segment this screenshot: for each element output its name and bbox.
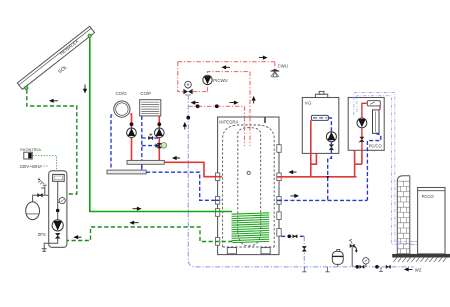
wire: cold water riser to mixer (light blue)	[188, 95, 195, 267]
tank port stubs right	[277, 145, 281, 236]
svg-text:PCCO: PCCO	[422, 194, 435, 199]
wire: drain drop to cold main (light blue)	[303, 236, 305, 266]
wire: return manifold to tank (blue)	[146, 172, 221, 200]
valve on cold main 1	[360, 265, 364, 268]
arrow down on solid green drop	[84, 85, 87, 93]
svg-text:P/CWU: P/CWU	[213, 78, 227, 83]
ball valve on cold main	[355, 265, 359, 269]
pressure gauge on ZPS	[58, 197, 66, 204]
drain tee 2	[325, 267, 329, 272]
svg-text:PC/CO: PC/CO	[369, 144, 382, 149]
control line EKONTROL to ZPS (dotted green)	[32, 156, 56, 173]
wire: boiler return internal (blue)	[328, 118, 331, 132]
CWU tap symbol (shower outlet)	[271, 62, 280, 77]
wire: tank internal CWU drops (red dash-dot, over tank)	[245, 117, 251, 146]
ZPS internal pipe upper	[57, 181, 59, 220]
gas boiler KG housing	[302, 98, 339, 154]
wire: CO/P supply (red)	[158, 116, 160, 160]
solar collector SOL (HEWALEX panel)	[17, 26, 94, 89]
wire: tank drain to cold main (blue)	[281, 235, 304, 237]
tank foot right	[261, 248, 270, 254]
wire: boiler return drop (blue)	[328, 142, 332, 201]
wire: supply manifold to tank (red)	[164, 162, 221, 176]
svg-text:CO/G: CO/G	[116, 91, 128, 96]
pump CO/G	[127, 128, 137, 138]
wire: solar supply (solid green) collector to tank coil	[90, 38, 232, 212]
arrow left on red supply	[173, 157, 180, 160]
arrow right on mixer line	[230, 101, 238, 104]
arrow left on CH supply main	[290, 171, 297, 174]
pressure gauge on cold main	[363, 257, 369, 267]
solar coil inside tank (green)	[232, 213, 270, 243]
tank port stubs left	[215, 173, 219, 245]
wire: PC/CO internal supply (red)	[362, 103, 380, 150]
wire: CH return into tank stub (blue)	[215, 199, 283, 201]
wire: CH supply main tank to sources (red)	[278, 176, 357, 178]
wire: CH return main (blue)	[278, 199, 367, 201]
wire: solar supply inside tank (green)	[215, 211, 232, 213]
wire: CO/G supply (red)	[130, 114, 131, 160]
valve on vessel pipe	[38, 193, 43, 197]
solar expansion vessel	[26, 202, 40, 220]
heat pump indoor unit PC/CO housing	[348, 98, 384, 151]
wire: CWU pump branch (red dash-dot)	[208, 72, 251, 92]
arrow down on boiler return	[326, 176, 329, 179]
boiler heat exchanger block	[311, 115, 328, 120]
ball valve on cold main 2	[375, 265, 379, 269]
ground under outdoor unit	[392, 254, 450, 262]
valve below ZPS pump	[55, 233, 60, 238]
filter valve PC/CO	[359, 137, 364, 143]
wire: mixer right port (red dash-dot)	[193, 91, 208, 93]
pump CO/P	[155, 128, 165, 138]
ball valve above pump CO/G	[130, 122, 134, 126]
wire: tank to mixer line (red dash-dot)	[188, 106, 244, 146]
wire: solar return inside tank (dashed green)	[215, 241, 233, 243]
ZPS internal pipe lower + drain elbow	[44, 238, 58, 248]
collector port right	[88, 34, 91, 37]
arrow right on solid green horizontal	[133, 207, 141, 210]
tank foot left	[227, 248, 236, 254]
pipe to expansion vessel	[33, 195, 49, 202]
ZPS controller display	[53, 174, 65, 181]
svg-text:INTEGRA: INTEGRA	[219, 120, 238, 125]
mixing valve 3-way with actuator	[156, 143, 167, 149]
arrow on dashed green top	[50, 99, 58, 102]
arrow up on cold riser	[183, 123, 186, 130]
wire: manifold interconnect (blue)	[141, 164, 143, 170]
brick chimney wall	[397, 176, 410, 254]
refrigerant line 2 (lavender)	[357, 96, 418, 245]
wire: CO/P return (blue)	[141, 116, 143, 170]
arrow left on dashed green y227	[131, 221, 139, 224]
ball valve on mixer line 2	[215, 104, 219, 108]
valve on tank drain	[293, 235, 297, 238]
svg-text:EKONTROL: EKONTROL	[20, 147, 42, 152]
pump KG	[326, 132, 336, 142]
wire: tank hot outlet riser (red dash-dot)	[249, 72, 251, 146]
arrow right on CH return main	[291, 195, 299, 198]
safety valve group on ZPS	[38, 178, 47, 195]
ball valve on ZPS pipe	[56, 209, 60, 213]
boiler flue flange	[315, 91, 327, 97]
svg-text:KG: KG	[305, 101, 312, 106]
safety valve group on cold main	[349, 239, 358, 267]
wire: CWU loop top (red dash-dot)	[178, 61, 275, 63]
wire: cold water main (light blue)	[196, 266, 414, 268]
pump P/CWU	[203, 75, 212, 84]
PC/CO plate heat exchanger	[373, 110, 380, 133]
arrow left on CWU pump branch	[223, 66, 231, 69]
wire: PC/CO supply legs (red)	[355, 150, 362, 177]
arrow left at WZ inlet	[405, 268, 413, 271]
refrigerant line 1 (lavender)	[354, 93, 418, 242]
pump PC/CO	[357, 118, 367, 128]
wire: CO/G return (blue)	[111, 115, 112, 171]
radiator CO/P	[140, 100, 161, 116]
collector port left	[25, 86, 28, 89]
ball valve on tank drain	[288, 235, 292, 239]
tank inner DHW vessel (dashed)	[238, 128, 261, 246]
DHW expansion vessel	[332, 249, 343, 266]
arrow left on mixer line	[192, 101, 199, 104]
drain fitting	[42, 249, 47, 252]
arrow up on riser	[252, 97, 255, 104]
svg-text:CO/P: CO/P	[140, 91, 151, 96]
check valve on cold riser	[186, 116, 190, 120]
arrow right on CWU top	[259, 56, 267, 59]
ZPS solar pump group housing	[49, 171, 67, 248]
arrow left on dashed green y240	[75, 236, 82, 239]
supply manifold (upper bar)	[127, 160, 164, 164]
heat pump outdoor unit PCCO	[418, 188, 445, 254]
wire: boiler supply (red)	[310, 120, 312, 176]
tank top fitting	[264, 118, 266, 124]
tank sensor	[247, 171, 250, 174]
return manifold (lower bar)	[107, 170, 146, 174]
wire: CWU loop left drop (red dash-dot)	[178, 62, 184, 92]
valve below KG pump	[329, 145, 333, 150]
wire: CH supply into tank stub (red)	[215, 176, 283, 178]
tank buffer body (dashed)	[223, 125, 275, 247]
refrigerant lines over wall (lavender)	[396, 241, 418, 244]
wire: bypass branch (blue)	[142, 137, 160, 139]
ball valve above pump CO/P	[157, 122, 161, 126]
valve on cold main 3	[386, 265, 390, 268]
wire: solar return from tank coil to ZPS (dashed green)	[67, 227, 233, 242]
ball valve on mixer line 1	[196, 104, 200, 108]
svg-text:CWU: CWU	[278, 63, 288, 68]
svg-text:WZ: WZ	[415, 268, 422, 273]
buffer tank INTEGRA outer casing	[218, 117, 279, 255]
wire: boiler supply stub (red)	[311, 153, 317, 164]
pump ZPS (solar pump)	[52, 220, 63, 231]
heating circuit CO/G (circle symbol)	[114, 101, 130, 117]
power line 230V to ZPS (dotted green)	[41, 165, 49, 167]
PC/CO controller	[367, 101, 380, 106]
valve on drain drop	[302, 246, 306, 251]
wire: solar return to collector (dashed green)	[27, 90, 77, 195]
wire: PC/CO return (blue)	[367, 133, 380, 200]
svg-text:ZPS: ZPS	[38, 232, 46, 237]
drain tee 1	[302, 267, 306, 272]
thermostatic mixing valve	[183, 81, 192, 95]
svg-text:230V~50Hz: 230V~50Hz	[20, 164, 42, 169]
drain tee 3	[379, 267, 383, 271]
wire: mixing branch (blue)	[142, 145, 156, 147]
balancing valve on bypass	[149, 134, 153, 139]
EKONTROL controller box	[24, 152, 32, 159]
